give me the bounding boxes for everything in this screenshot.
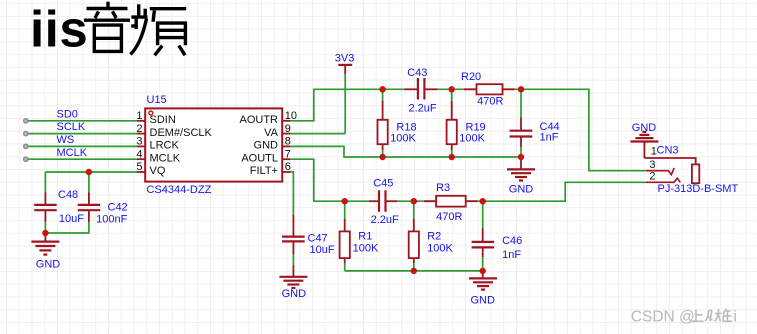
wire AOUTL net: [290, 159, 645, 201]
svg-text:1nF: 1nF: [540, 131, 559, 143]
value PJ-313D-B-SMT: [658, 183, 739, 195]
label GND C47: [282, 288, 307, 300]
label R20: [461, 71, 481, 83]
svg-text:CN3: CN3: [657, 145, 679, 157]
wire 3V3 to VA pin9: [290, 74, 345, 134]
label GND C44: [509, 183, 534, 195]
label GND C46: [470, 294, 495, 306]
wire SCLK: [26, 133, 137, 135]
label R1: [358, 231, 372, 243]
junction C46 top: [480, 198, 486, 204]
designator CN3: [657, 145, 679, 157]
label C42: [108, 201, 128, 213]
svg-text:C42: C42: [108, 201, 128, 213]
svg-text:CSDN @: CSDN @: [631, 309, 695, 326]
wire WS: [26, 145, 137, 147]
net label SCLK: [57, 121, 86, 133]
svg-text:i: i: [734, 309, 737, 326]
svg-text:AOUTL: AOUTL: [241, 152, 278, 164]
svg-text:2: 2: [649, 171, 655, 183]
svg-text:GND: GND: [254, 140, 279, 152]
svg-text:3V3: 3V3: [335, 53, 355, 65]
svg-text:U15: U15: [147, 94, 167, 106]
junction R2 bottom: [411, 268, 417, 274]
resistor R3: [424, 196, 478, 207]
svg-text:GND: GND: [282, 288, 307, 300]
value CS4344-DZZ: [147, 184, 212, 196]
pin numbers left 1-5: [136, 110, 142, 173]
connector pin2 contact: [646, 178, 681, 182]
wire bottom rail: [345, 270, 483, 272]
label C47: [308, 232, 328, 244]
chip pin leads right: [282, 121, 290, 172]
connector jack body: [692, 164, 699, 183]
svg-text:VQ: VQ: [150, 165, 166, 177]
svg-text:R2: R2: [427, 231, 441, 243]
capacitor C45: [369, 190, 397, 212]
svg-text:R1: R1: [358, 231, 372, 243]
svg-text:MCLK: MCLK: [57, 147, 88, 159]
svg-text:GND: GND: [509, 183, 534, 195]
ground C47: [279, 265, 307, 288]
pin names right: [240, 114, 279, 177]
label GND left: [36, 259, 61, 271]
net label WS: [57, 134, 75, 146]
value 10uF: [310, 244, 335, 256]
junction R1 top: [342, 198, 348, 204]
label C43: [407, 67, 427, 79]
svg-text:MCLK: MCLK: [150, 152, 181, 164]
net label SD0: [57, 109, 78, 121]
value 100nF: [96, 213, 127, 225]
resistor R20: [464, 84, 515, 94]
designator U15: [147, 94, 167, 106]
svg-text:10uF: 10uF: [59, 213, 84, 225]
value 100K: [427, 243, 453, 255]
wire FILT+ pin6: [290, 172, 293, 265]
label C46: [502, 235, 522, 247]
svg-text:GND: GND: [36, 259, 61, 271]
svg-text:LRCK: LRCK: [150, 140, 180, 152]
value 2.2uF: [409, 102, 437, 114]
junction R19 bottom: [449, 154, 455, 160]
junction VQ/C42: [86, 169, 92, 175]
svg-text:C46: C46: [502, 235, 522, 247]
svg-text:100K: 100K: [353, 243, 379, 255]
ground C46: [469, 271, 497, 290]
open end dots: [24, 119, 28, 162]
wire SD0: [26, 120, 137, 122]
capacitor C43: [405, 78, 438, 100]
resistor R2: [409, 201, 419, 271]
svg-text:C47: C47: [308, 232, 328, 244]
junction C43 right: [449, 86, 455, 92]
label R18: [396, 122, 416, 134]
svg-text:2.2uF: 2.2uF: [409, 102, 437, 114]
resistor R19: [447, 89, 457, 157]
svg-text:470R: 470R: [436, 211, 462, 223]
svg-text:R18: R18: [396, 122, 416, 134]
wire AOUTR net: [290, 89, 645, 170]
junction gnd left: [42, 230, 48, 236]
pin number 1: [651, 145, 657, 157]
svg-text:R20: R20: [461, 71, 481, 83]
wire GND net pin8: [290, 146, 521, 157]
svg-text:iis: iis: [30, 1, 88, 58]
capacitor C44: [510, 89, 533, 157]
label R19: [466, 122, 486, 134]
pin numbers right 10-6: [285, 110, 297, 173]
capacitor C48: [34, 193, 57, 222]
svg-text:SCLK: SCLK: [57, 121, 86, 133]
ground left: [31, 233, 59, 255]
capacitor C42: [78, 193, 101, 222]
capacitor C47: [282, 215, 305, 254]
junction C44 bottom: [518, 154, 524, 160]
svg-text:C45: C45: [373, 178, 393, 190]
svg-text:R19: R19: [466, 122, 486, 134]
pin names left: [150, 114, 213, 177]
net label MCLK: [57, 147, 88, 159]
svg-text:3: 3: [649, 159, 655, 171]
chip U1 body CS4344: [145, 108, 282, 181]
value 100K: [390, 133, 416, 145]
pin number 3: [649, 159, 655, 171]
label GND connector: [632, 122, 657, 134]
svg-text:100nF: 100nF: [96, 213, 127, 225]
watermark CSDN: [631, 309, 737, 326]
label R3: [436, 182, 450, 194]
connector CN3 pin1: [644, 158, 695, 164]
svg-text:AOUTR: AOUTR: [240, 114, 279, 126]
value 1nF: [502, 249, 521, 261]
svg-text:SDIN: SDIN: [150, 114, 176, 126]
label C44: [540, 121, 560, 133]
pin number 2: [649, 171, 655, 183]
wire VQ: [45, 171, 137, 173]
label C45: [373, 178, 393, 190]
value 100K: [459, 133, 485, 145]
svg-text:SD0: SD0: [57, 109, 78, 121]
resistor R1: [340, 201, 350, 271]
label C48: [58, 189, 78, 201]
svg-text:GND: GND: [470, 294, 495, 306]
ground connector inverted: [630, 132, 658, 158]
chip pin leads left: [137, 121, 145, 172]
ground C44: [507, 157, 535, 181]
value 470R: [436, 211, 462, 223]
svg-text:R3: R3: [436, 182, 450, 194]
junction R18 top: [379, 86, 385, 92]
svg-text:VA: VA: [264, 127, 279, 139]
svg-text:CS4344-DZZ: CS4344-DZZ: [147, 184, 212, 196]
junction C44 top: [518, 86, 524, 92]
svg-text:FILT+: FILT+: [250, 165, 278, 177]
svg-text:2.2uF: 2.2uF: [371, 214, 399, 226]
svg-text:470R: 470R: [477, 95, 503, 107]
svg-text:100K: 100K: [427, 243, 453, 255]
title iis音频: [30, 1, 186, 58]
svg-text:1nF: 1nF: [502, 249, 521, 261]
power 3V3: [335, 53, 355, 74]
svg-text:100K: 100K: [459, 133, 485, 145]
label R2: [427, 231, 441, 243]
value 10uF: [59, 213, 84, 225]
junction R2 top: [411, 198, 417, 204]
svg-text:WS: WS: [57, 134, 75, 146]
wire MCLK: [26, 158, 137, 160]
value 2.2uF: [371, 214, 399, 226]
svg-text:C43: C43: [407, 67, 427, 79]
value 1nF: [540, 131, 559, 143]
junction R18 bottom: [379, 154, 385, 160]
wire C48/C42 branches: [45, 172, 89, 233]
svg-text:100K: 100K: [390, 133, 416, 145]
resistor R18: [378, 89, 388, 157]
junction C46 bottom: [480, 268, 486, 274]
svg-text:C48: C48: [58, 189, 78, 201]
svg-text:DEM#/SCLK: DEM#/SCLK: [150, 127, 213, 139]
svg-text:PJ-313D-B-SMT: PJ-313D-B-SMT: [658, 183, 739, 195]
connector pin3 contact: [646, 168, 674, 175]
capacitor C46: [472, 201, 495, 271]
svg-text:10uF: 10uF: [310, 244, 335, 256]
pin 1 indicator circle: [149, 111, 153, 115]
value 100K: [353, 243, 379, 255]
value 470R: [477, 95, 503, 107]
